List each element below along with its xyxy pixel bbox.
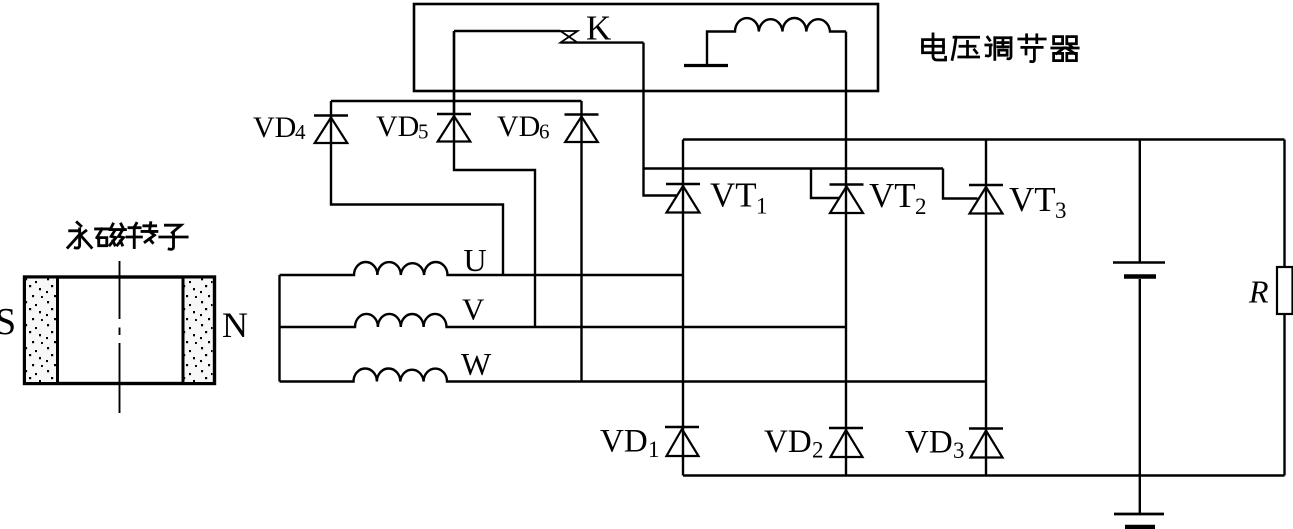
svg-text:N: N — [222, 305, 248, 345]
svg-text:S: S — [0, 301, 16, 343]
svg-text:1: 1 — [756, 194, 768, 219]
diode VD6 — [580, 101, 582, 382]
load resistor R — [1283, 140, 1285, 268]
right magnet band N — [183, 279, 213, 383]
VT2 gate branch — [811, 169, 840, 199]
diode VD1 — [665, 426, 699, 429]
svg-text:1: 1 — [648, 437, 660, 462]
gate bus — [644, 167, 944, 169]
svg-text:3: 3 — [1055, 198, 1067, 223]
stator winding V — [280, 314, 847, 327]
top cathode bus — [683, 138, 1285, 140]
svg-text:W: W — [461, 346, 492, 382]
svg-text:VT: VT — [710, 176, 757, 215]
svg-text:6: 6 — [539, 120, 550, 144]
diode VD2 — [829, 427, 863, 430]
star point wire — [278, 275, 280, 382]
stator winding W — [280, 369, 987, 382]
diode VD3 — [969, 427, 1003, 430]
regulator label 电压调节器 — [923, 34, 1079, 62]
svg-text:2: 2 — [812, 438, 824, 463]
relay core bar — [684, 64, 728, 67]
svg-text:2: 2 — [915, 194, 927, 219]
svg-text:R: R — [1248, 274, 1269, 310]
switch contact K — [454, 30, 561, 32]
svg-text:VD: VD — [376, 110, 419, 143]
relay coil — [707, 18, 846, 65]
svg-text:VT: VT — [869, 176, 916, 215]
rotor body — [25, 277, 215, 384]
voltage regulator box — [414, 4, 878, 91]
svg-text:VD: VD — [905, 425, 953, 461]
thyristor VT3 — [985, 140, 987, 476]
battery — [1139, 140, 1141, 263]
left magnet band S — [26, 279, 58, 383]
svg-text:VT: VT — [1009, 180, 1056, 219]
diode VD4 — [331, 101, 503, 275]
diode VD5 — [454, 31, 535, 327]
svg-text:3: 3 — [953, 438, 965, 463]
svg-text:4: 4 — [295, 120, 306, 144]
ground — [1139, 476, 1141, 514]
svg-text:VD: VD — [497, 110, 540, 143]
rotor center line — [119, 261, 121, 413]
VT3 gate branch — [943, 169, 978, 199]
svg-text:VD: VD — [764, 424, 812, 460]
thyristor VT2 — [845, 32, 847, 476]
stator winding U — [280, 262, 684, 275]
svg-text:U: U — [464, 242, 487, 278]
svg-text:K: K — [586, 9, 611, 48]
svg-text:VD: VD — [253, 111, 296, 144]
wire from K left to VD5 — [453, 31, 455, 114]
thyristor VT1 — [682, 140, 684, 476]
rotor label 永磁转子 — [68, 222, 187, 249]
svg-text:5: 5 — [418, 120, 429, 144]
VD top bus — [331, 100, 582, 102]
wire K right to VT1 gate — [644, 43, 677, 196]
bottom bus — [683, 474, 1285, 476]
svg-text:VD: VD — [600, 424, 648, 460]
svg-text:V: V — [462, 292, 485, 327]
